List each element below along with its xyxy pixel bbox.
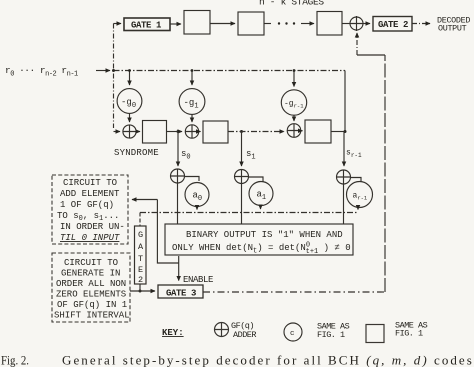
register stage S3: [317, 12, 342, 36]
svg-text:-g0: -g0: [121, 98, 136, 111]
svg-text:2: 2: [138, 275, 143, 285]
wire: U4 down to det box: [177, 183, 179, 224]
svg-text:IN ORDER UN-: IN ORDER UN-: [60, 222, 125, 232]
wire: enable arrow into GATE3: [178, 256, 180, 281]
adder A1 (top XOR): [350, 17, 363, 30]
svg-text:GATE 2: GATE 2: [378, 20, 408, 30]
adder U3: [287, 124, 301, 138]
wire: input vertical line x=113.5 (dash-dot): [113, 24, 115, 129]
adder U6 (sr-1 column): [337, 170, 351, 184]
svg-text:ADDER: ADDER: [233, 330, 256, 340]
wire: U6 down to det box: [343, 184, 345, 224]
svg-text:n - k STAGES: n - k STAGES: [259, 0, 324, 8]
wire: U3 to R3: [301, 130, 303, 132]
svg-text:SYNDROME: SYNDROME: [114, 148, 159, 158]
wire: enable riser: [157, 200, 178, 264]
register stage S2: [238, 12, 264, 35]
svg-text:c: c: [290, 330, 295, 338]
multiplier -gr-1: [281, 90, 306, 115]
wire: ar-1 down arrow to bus: [357, 208, 359, 210]
register R1: [143, 121, 167, 144]
svg-text:ENABLE: ENABLE: [183, 275, 213, 285]
svg-text:ONLY WHEN det(Nt) = det(N0t+1: ONLY WHEN det(Nt) = det(N0t+1 ) ≠ 0: [172, 242, 351, 257]
svg-text:FIG. 1: FIG. 1: [395, 329, 423, 339]
key adder symbol: [215, 323, 229, 337]
wire: arrow into GATE 1: [114, 23, 122, 25]
wire: s0 tap down: [177, 132, 179, 167]
wire: S1 to S2: [210, 23, 235, 25]
wire: a0 down arrow to bus: [196, 207, 198, 210]
wire: a1 down arrow to bus: [260, 206, 262, 210]
wire: A1 to GATE2: [363, 23, 370, 25]
svg-text:Fig. 2.: Fig. 2.: [1, 353, 29, 367]
svg-text:T: T: [138, 254, 143, 264]
svg-text:CIRCUIT TO: CIRCUIT TO: [64, 258, 118, 268]
svg-text:s0: s0: [181, 149, 191, 162]
wire: arrow bus into -g1: [191, 71, 193, 86]
svg-text:a0: a0: [193, 191, 203, 204]
svg-text:GATE 3: GATE 3: [166, 289, 196, 299]
svg-text:-gr-1: -gr-1: [284, 100, 304, 110]
wire: riser to A1 bottom (arrow up): [356, 33, 358, 55]
wire: a-bus corner down to GATE vbox: [139, 213, 141, 227]
wire: GATE2v stem to gate3 line: [139, 284, 141, 291]
wire: R3 to feedback junction: [331, 131, 345, 133]
wire: R2 dash-dot to U3 with s1 tap: [228, 131, 284, 133]
svg-text:FIG. 1: FIG. 1: [317, 330, 345, 340]
wire: r input arrow: [96, 70, 110, 72]
wire: arrow into syndrome adder U1: [114, 131, 121, 133]
svg-text:1 OF GF(q): 1 OF GF(q): [60, 200, 114, 210]
register R3: [305, 120, 331, 143]
dots between S2 and S3: [278, 22, 295, 24]
svg-text:E: E: [138, 265, 143, 275]
svg-text:KEY:: KEY:: [162, 328, 184, 338]
svg-text:GATE 1: GATE 1: [131, 21, 162, 31]
junction dots on bus: [112, 69, 347, 293]
wire: box2 to GATE3: [130, 290, 155, 292]
adder U2: [185, 125, 198, 138]
wire: s1 tap down: [241, 132, 243, 167]
wire: GATE1 to stage S1: [170, 23, 181, 25]
svg-text:ZERO ELEMENTS: ZERO ELEMENTS: [56, 290, 126, 300]
text: box2 lines: [54, 258, 130, 321]
wire: arrow bus into -g0: [129, 71, 131, 86]
key square symbol: [366, 325, 384, 343]
wire: -g1 to adder U2: [191, 115, 193, 123]
adder U1: [123, 125, 136, 138]
svg-text:TIL 0 INPUT: TIL 0 INPUT: [60, 233, 120, 243]
wire: U1 to R1: [136, 131, 140, 133]
register R2: [203, 121, 228, 143]
circle ar-1: [347, 182, 373, 208]
svg-text:ar-1: ar-1: [353, 192, 368, 202]
wire: arrow into box1 from riser: [132, 199, 157, 201]
wire: GATE2 to decoded output (dash-dot arrow): [412, 23, 430, 25]
wire: arrow bus into -gr-1: [293, 71, 295, 87]
wire: sr-1 tap down: [343, 132, 345, 167]
wire: GATE3 output dash-dot: [203, 291, 385, 293]
wire: U5 to a1: [249, 177, 264, 182]
key circle c symbol: [284, 323, 302, 341]
wire: -gr-1 to adder U3: [293, 116, 295, 122]
text: box1 lines: [57, 178, 125, 243]
multiplier -g0: [117, 89, 142, 114]
gate vertical GATE2v box: [135, 226, 147, 284]
svg-text:GENERATE IN: GENERATE IN: [61, 269, 120, 279]
svg-text:ORDER ALL NON: ORDER ALL NON: [56, 279, 126, 289]
svg-text:r0 ··· rn-2 rn-1: r0 ··· rn-2 rn-1: [5, 65, 78, 79]
svg-text:OF GF(q) IN 1: OF GF(q) IN 1: [57, 300, 127, 310]
svg-text:G: G: [138, 230, 143, 240]
svg-text:OUTPUT: OUTPUT: [438, 24, 467, 34]
svg-text:BINARY OUTPUT IS "1" WHEN AND: BINARY OUTPUT IS "1" WHEN AND: [186, 230, 343, 240]
wire: S2 dots S3: [264, 23, 271, 25]
svg-text:s1: s1: [246, 149, 256, 162]
svg-text:a1: a1: [257, 190, 267, 203]
wire: feedback bus y=70.5 (dash-dot): [114, 70, 346, 72]
svg-text:CIRCUIT TO: CIRCUIT TO: [63, 178, 117, 188]
wire: U2 to R2: [199, 131, 201, 133]
svg-text:SHIFT INTERVAL: SHIFT INTERVAL: [54, 311, 130, 321]
wire: U4 to a0: [185, 177, 200, 182]
text: vertical gate letters: [138, 230, 144, 285]
gate GATE2: [373, 17, 412, 32]
box2 dashed: circuit to generate: [52, 253, 130, 322]
wire: right riser x=385: [384, 55, 386, 292]
svg-text:sr-1: sr-1: [346, 149, 362, 160]
det box: binary output: [165, 224, 353, 255]
wire: S3 to adder A1: [342, 23, 350, 25]
gate GATE1: [124, 18, 170, 31]
circle a1: [249, 182, 273, 206]
adder U4 (s0 column): [171, 169, 185, 183]
gate GATE3: [158, 285, 203, 298]
multiplier -g1: [179, 89, 205, 115]
svg-text:ADD ELEMENT: ADD ELEMENT: [60, 189, 120, 199]
wire: feedback riser x=345: [344, 71, 346, 132]
wire: U6 to ar-1: [351, 178, 362, 182]
svg-text:A: A: [138, 242, 144, 252]
adder U5 (s1 column): [235, 170, 249, 184]
circle a0: [185, 183, 209, 207]
box1 dashed: circuit to add element: [52, 175, 128, 244]
wire: a-bus y=212.5 dash-dot: [140, 212, 358, 214]
svg-text:-g1: -g1: [184, 98, 199, 111]
wire: U5 down to det box: [241, 184, 243, 225]
svg-text:General step-by-step decoder f: General step-by-step decoder for all BCH…: [62, 353, 473, 367]
wire: -g0 to adder U1: [129, 114, 131, 123]
wire: R1 to U2 with s0 tap: [167, 131, 183, 133]
register stage S1: [184, 11, 210, 35]
